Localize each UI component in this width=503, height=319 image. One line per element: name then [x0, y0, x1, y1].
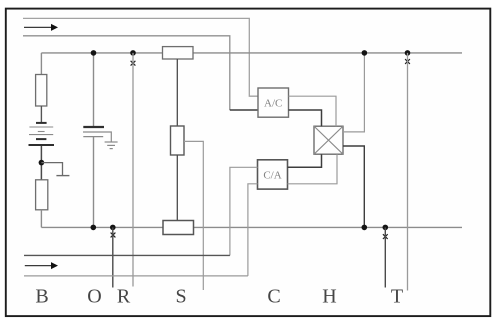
converter U1 A/C	[258, 88, 289, 117]
svg-text:T: T	[391, 286, 403, 308]
resistor R3 (inline, top feed)	[163, 47, 194, 59]
svg-text:C/A: C/A	[263, 169, 281, 181]
switch contact x (bottom T column)	[383, 234, 388, 239]
node top wire T-column junction	[405, 50, 411, 56]
wire top bus line 2	[23, 36, 230, 110]
wire R3 to R4	[176, 59, 178, 126]
wire into A/C lower input	[230, 109, 258, 111]
capacitor C1 lower lead	[93, 137, 95, 228]
wire hybrid bottom to C/A lower input	[288, 154, 338, 184]
resistor R1	[36, 75, 47, 107]
svg-text:O: O	[87, 286, 101, 308]
svg-text:A/C: A/C	[264, 98, 282, 110]
wire T column from top conductor down	[407, 53, 409, 291]
wire A/C lower output to hybrid top	[289, 110, 322, 126]
svg-text:C: C	[267, 286, 280, 308]
converter U2 C/A	[258, 160, 288, 189]
capacitor C1 upper lead	[93, 53, 95, 127]
current direction arrow (bottom)	[25, 262, 58, 269]
capacitor C1 plates	[83, 127, 111, 142]
wire R1 to battery	[40, 106, 42, 123]
wire R4 tap to test point S	[184, 141, 203, 290]
wire C/A upper output to bottom bus line 1	[230, 167, 258, 255]
wire R column from top conductor down	[132, 53, 134, 287]
switch contact x (top R column)	[131, 61, 136, 66]
resistor R2	[36, 180, 48, 210]
current direction arrow (top)	[24, 24, 58, 31]
hybrid transformer T1	[314, 126, 343, 154]
wire top bus line 1	[23, 18, 258, 96]
node bottom wire hybrid junction	[362, 225, 368, 231]
wire main top conductor	[41, 52, 462, 54]
wire hybrid upper right to top conductor	[343, 53, 364, 132]
wire earth branch	[41, 163, 62, 176]
node bottom wire T-column junction	[383, 225, 389, 231]
svg-text:S: S	[175, 286, 186, 308]
wire C/A lower output to bottom bus line 2	[248, 184, 258, 276]
wire left branch down (B column)	[40, 53, 42, 75]
node bottom wire R-column junction	[110, 225, 116, 231]
node bottom wire / C1 junction	[91, 225, 97, 231]
wire bottom bus line 2	[24, 275, 248, 277]
wire bottom bus line 1	[24, 254, 230, 256]
ground (earth) for C1	[105, 142, 118, 149]
wire hybrid bottom to C/A upper input	[288, 154, 322, 167]
wire R4 to R5	[176, 155, 178, 221]
wire R2 to bottom conductor	[40, 210, 42, 228]
wire main bottom conductor	[41, 226, 462, 228]
wire T column from bottom conductor down	[384, 227, 386, 287]
svg-text:H: H	[322, 286, 336, 308]
ground (chassis bar)	[56, 175, 69, 177]
wire battery to node	[40, 146, 42, 180]
wire A/C upper output to hybrid top	[289, 96, 337, 126]
svg-text:B: B	[35, 286, 48, 308]
resistor R5 (inline, bottom feed)	[163, 221, 194, 235]
svg-text:R: R	[117, 286, 131, 308]
wire hybrid lower right to bottom conductor	[343, 146, 364, 227]
switch contact x (top T column)	[405, 59, 410, 64]
wire R column from bottom conductor down	[112, 227, 114, 287]
resistor R4 (sense)	[171, 126, 185, 155]
battery BT1	[29, 123, 55, 145]
node battery midpoint junction	[39, 160, 45, 166]
node top wire R-column junction	[130, 50, 136, 56]
node top wire / C1 junction	[91, 50, 97, 56]
switch contact x (bottom R column)	[111, 233, 116, 238]
node top wire hybrid junction	[362, 50, 368, 56]
